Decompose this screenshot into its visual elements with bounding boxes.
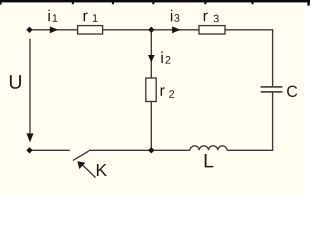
label r3 'r' [204,13,208,22]
node A (top-left) [26,27,32,33]
wire: right branch lower (capacitor to bottom-right corner) [227,93,273,151]
switch K pointer line [81,163,96,178]
inductor L coil [190,146,227,150]
capacitor C bottom plate [261,91,283,93]
label K [97,164,107,176]
arrow i1 [50,26,58,33]
capacitor C top plate [261,86,283,88]
wire: middle branch upper (node B to r2) [150,31,152,78]
label r1 'r' [84,13,88,22]
arrow U (down, left branch) [27,133,34,142]
label r1 '1' [93,14,98,21]
resistor r3 [199,26,225,34]
label U [10,75,21,89]
node D (bottom-left) [26,147,32,153]
arrow i2 (down) [148,55,155,62]
switch K blade [73,151,89,160]
table cell tick x=0 [0,0,2,5]
label i3 '3' [174,14,179,22]
table border line (top) [0,0,310,2]
label i1 'i' [48,10,49,21]
node C (bottom-middle junction) [148,147,154,153]
wire: middle branch lower (r2 to node C) [150,102,152,149]
table cell tick x=72 [72,0,74,4]
label i2 'i' [161,52,162,63]
label i1 '1' [53,14,58,21]
wire: bottom rail left stub (switch to node D) [32,149,70,151]
label L [205,154,214,167]
cream cell background [0,0,304,194]
table border corner hook (top right) [307,0,309,6]
arrowhead K pointer [77,161,85,169]
label r2 '2' [169,90,174,98]
node B (top-middle junction) [148,27,154,33]
table cell tick x=252 [252,0,254,4]
table cell tick x=153 [152,0,154,4]
label r3 '3' [214,15,219,23]
wire: bottom rail (coil to middle node) [151,149,190,151]
table cell tick x=112 [112,0,114,4]
label r2 'r' [161,87,165,96]
resistor r1 [78,26,103,34]
resistor r2 [146,78,156,102]
arrow i3 [172,26,180,33]
wire: left branch (below node A) [29,39,31,135]
wire: top rail from node A to top-right corner [32,29,274,31]
table cell tick x=205 [204,0,206,4]
wire: bottom rail (middle node to switch) [89,149,152,151]
label i2 '2' [166,56,171,64]
label C [287,86,297,97]
label i3 'i' [171,10,172,21]
wire: right branch upper (corner to capacitor) [272,30,274,87]
